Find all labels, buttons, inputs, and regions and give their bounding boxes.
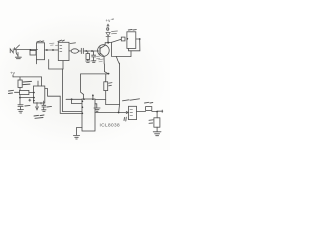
capacitor C5 + ground xyxy=(18,105,30,113)
IC U4 (top-right box) xyxy=(121,30,136,49)
resistor R5 100k xyxy=(18,77,32,91)
resistor R4 (to ground) xyxy=(149,112,160,132)
wire U3 top stub xyxy=(92,95,94,100)
IC U5 (lower-left box) xyxy=(33,77,45,103)
ground (right of U3 top) xyxy=(94,104,100,112)
wire U3 output to pot xyxy=(95,111,128,113)
svg-text:+v: +v xyxy=(106,18,112,23)
transistor Q1 xyxy=(98,43,110,64)
wire U1 to U2 xyxy=(45,43,59,51)
amp U2 (box) with label above xyxy=(58,40,69,60)
svg-text:ICL8038: ICL8038 xyxy=(100,122,121,127)
pot R3 (box) with label xyxy=(123,99,140,120)
pin label 4 xyxy=(124,117,126,121)
wire above U3 xyxy=(66,98,106,103)
wire U1 bottom net xyxy=(49,60,63,70)
capacitor C1 (electrolytic ellipse) xyxy=(69,43,81,53)
ground (below U3) xyxy=(73,128,82,139)
ground (U5 pin arrow) xyxy=(36,103,39,110)
pot R6 (trim box) with label arrow xyxy=(9,90,35,94)
power +V (lower-left) xyxy=(10,71,42,77)
capacitor C3 (hanging) xyxy=(92,51,100,62)
IC U3 ICL8038 xyxy=(82,98,95,131)
wire U4 output loop xyxy=(129,38,141,51)
value label uF .05 xyxy=(34,115,44,118)
wire bus down to U3 output node xyxy=(116,51,131,113)
wire down to U3 top xyxy=(81,74,84,99)
wire input to U1 xyxy=(16,49,37,51)
wire U2 feedback net (second left rail) xyxy=(45,89,82,114)
ground (output) xyxy=(153,132,161,136)
power +V with diode D1 xyxy=(106,18,118,42)
op-amp U1 (box) xyxy=(36,41,44,64)
wire long vertical to U3 xyxy=(63,69,83,112)
capacitor C4 (series, right) xyxy=(137,102,163,112)
wire drop to output bus xyxy=(112,42,117,56)
wire emitter branch with resistor R2 xyxy=(81,64,120,105)
wire collector rail xyxy=(105,39,121,43)
capacitor C6 + ground (below U5) xyxy=(41,101,52,111)
node + mark xyxy=(29,99,31,101)
capacitor C2 (coupling bars) xyxy=(81,48,99,53)
node IN input arrow xyxy=(10,45,19,53)
wire second pin rail xyxy=(19,95,34,105)
capacitor C0 (small box under wire) xyxy=(30,49,37,55)
ground (input) xyxy=(15,51,21,59)
resistor R1 (hanging) xyxy=(86,51,91,62)
